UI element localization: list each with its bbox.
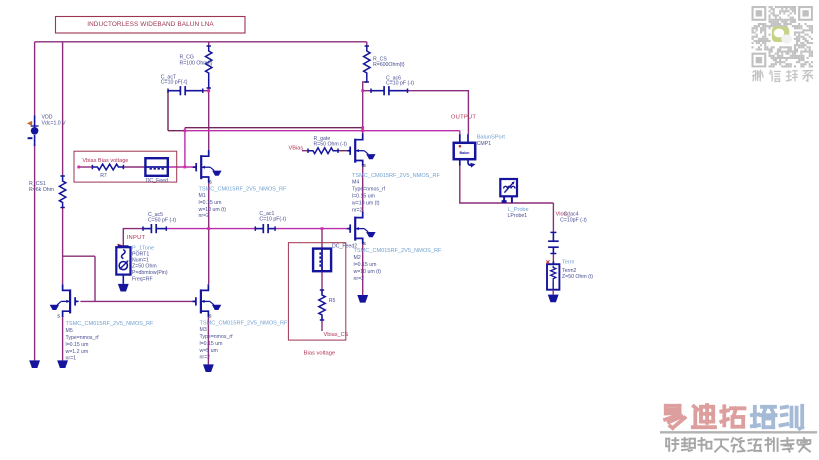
svg-text:DC_Feed2: DC_Feed2 xyxy=(332,244,357,250)
balun CMP1 xyxy=(454,134,506,168)
wire Vbias node start xyxy=(79,166,93,168)
termination Term2 xyxy=(546,259,593,294)
junction M4 drain upper xyxy=(361,126,364,129)
transistor M2 xyxy=(347,211,442,282)
wire cap to Term xyxy=(552,254,554,262)
node Vload label xyxy=(556,212,570,218)
wire VDD left rail upper xyxy=(34,42,36,116)
wire C_ac5 to C_ac1 xyxy=(166,228,255,230)
svg-text:P_1Tone: P_1Tone xyxy=(132,245,154,251)
wire mirror branch vertical xyxy=(94,256,96,301)
svg-text:R=600Ohm{t}: R=600Ohm{t} xyxy=(373,62,405,68)
svg-text:Vdc=1.0 V: Vdc=1.0 V xyxy=(42,120,67,126)
wire INPUT riser xyxy=(123,229,143,246)
resistor R5 xyxy=(319,290,336,320)
title box INDUCTORLESS WIDEBAND BALUN LNA xyxy=(56,17,246,34)
svg-text:R=50 Ohm (-t): R=50 Ohm (-t) xyxy=(314,141,348,147)
wire M1 gate to M4 drain xyxy=(185,127,363,129)
transistor M3 xyxy=(192,284,288,360)
svg-text:C=10 pF{-t}: C=10 pF{-t} xyxy=(161,80,188,86)
ground (Term2) xyxy=(548,295,559,303)
probe LProbe1 xyxy=(500,179,528,219)
node INPUT label xyxy=(127,235,146,241)
svg-text:C=10pF (-t): C=10pF (-t) xyxy=(560,217,587,223)
svg-text:s: s xyxy=(363,163,366,169)
ground (VDD rail) xyxy=(29,360,40,368)
wire DC_Feed2 to R5 xyxy=(321,271,323,293)
svg-text:w=1.2 um: w=1.2 um xyxy=(66,349,89,355)
svg-text:l=0.15 um: l=0.15 um xyxy=(200,341,223,347)
wire M1 source to M3 drain xyxy=(208,183,210,284)
svg-text:TSMC_CM015RF_2V5_NMOS_RF: TSMC_CM015RF_2V5_NMOS_RF xyxy=(199,187,288,193)
svg-text:Z=50 Ohm: Z=50 Ohm xyxy=(132,264,157,270)
wire R_CG drop from bus xyxy=(208,42,210,47)
wire rail2 upper (to R_CS1) xyxy=(62,42,64,176)
wire M4 source to M2 drain xyxy=(362,166,364,211)
wire VDD top bus xyxy=(35,41,367,43)
svg-text:nr=2: nr=2 xyxy=(200,355,211,361)
wire C_acT left vertical xyxy=(167,91,169,131)
svg-text:P=dbmtow(Pin): P=dbmtow(Pin) xyxy=(132,270,168,276)
ground (PORT1) xyxy=(118,284,129,292)
svg-text:M4: M4 xyxy=(352,180,359,186)
wire C_acT to gate junction xyxy=(168,130,185,132)
wire C_acT right stub xyxy=(203,90,209,92)
svg-text:w=10 um (t): w=10 um (t) xyxy=(354,269,382,275)
source P_1Tone PORT1 xyxy=(116,244,168,284)
resistor R_CS xyxy=(364,46,405,82)
svg-text:s: s xyxy=(209,314,212,320)
svg-text:R7: R7 xyxy=(100,173,107,179)
svg-text:M2: M2 xyxy=(354,255,361,261)
capacitor C_acT xyxy=(161,74,203,95)
resistor R7 xyxy=(92,164,123,179)
svg-text:s: s xyxy=(363,241,366,247)
transistor M4 xyxy=(347,134,441,214)
svg-text:Type=nmos_rf: Type=nmos_rf xyxy=(352,187,386,193)
inductor DC_Feed2 xyxy=(313,244,357,272)
transistor M1 xyxy=(193,150,287,219)
wire M5 source to ground xyxy=(62,317,64,360)
resistor R_CG xyxy=(180,46,213,88)
svg-text:l=0.15 um: l=0.15 um xyxy=(66,342,89,348)
svg-text:w=10 um (t): w=10 um (t) xyxy=(199,207,227,213)
svg-text:w=10 um (t): w=10 um (t) xyxy=(352,201,380,207)
bias voltage box outline xyxy=(288,243,345,340)
wire balun in1 drop xyxy=(459,131,461,134)
wire R_CG to M1 drain xyxy=(208,88,210,150)
svg-text:Z=50 Ohm (t): Z=50 Ohm (t) xyxy=(562,274,593,280)
svg-text:Type=nmos_rf: Type=nmos_rf xyxy=(66,335,100,341)
svg-text:C=10 pF(-t): C=10 pF(-t) xyxy=(259,216,286,222)
inductor DC_Feed xyxy=(145,158,168,184)
svg-text:Bias voltage: Bias voltage xyxy=(304,351,336,357)
wire M5-M3 gate net xyxy=(80,300,196,302)
capacitor C_ac4 xyxy=(548,212,587,254)
svg-text:l=0.15 um: l=0.15 um xyxy=(352,194,375,200)
junction M1-M3 at input net xyxy=(207,227,210,230)
wire M2 source to ground xyxy=(362,244,364,295)
wire mirror branch horizontal xyxy=(63,255,95,257)
svg-text:nr=2: nr=2 xyxy=(352,208,363,214)
svg-text:DC_Feed: DC_Feed xyxy=(146,178,168,184)
svg-text:Num=1: Num=1 xyxy=(132,258,149,264)
junction C_acT tap xyxy=(207,89,210,92)
svg-text:Type=nmos_rf: Type=nmos_rf xyxy=(200,334,234,340)
junction balun feed crossing xyxy=(361,129,364,132)
wire DC_Feed to M1 gate xyxy=(168,166,197,168)
wire C_ac6 to OUTPUT corner xyxy=(408,91,469,134)
svg-text:TSMC_CM015RF_2V5_NMOS_RF: TSMC_CM015RF_2V5_NMOS_RF xyxy=(66,321,155,327)
node Vbias label xyxy=(289,146,304,152)
node OUTPUT label xyxy=(451,115,477,121)
wire R_CS drop from bus xyxy=(366,42,368,47)
svg-text:Term2: Term2 xyxy=(562,268,577,274)
svg-text:OUTPUT: OUTPUT xyxy=(451,115,477,121)
svg-text:TSMC_CM015RF_2V5_NMOS_RF: TSMC_CM015RF_2V5_NMOS_RF xyxy=(200,321,289,327)
wire C_ac1 to M2 gate xyxy=(275,228,347,230)
junction Vbias node dot xyxy=(77,166,80,169)
svg-text:Vbias Bias voltage: Vbias Bias voltage xyxy=(82,158,128,164)
ground (M2 source) xyxy=(357,295,368,303)
ground (M5 source) xyxy=(57,360,68,368)
wire C_ac6 left stub xyxy=(363,90,371,92)
svg-text:l=0.15 um: l=0.15 um xyxy=(354,262,377,268)
svg-text:VBias: VBias xyxy=(289,146,304,152)
wire VDD left rail lower xyxy=(34,144,36,360)
svg-text:Freq=RF: Freq=RF xyxy=(132,276,153,282)
svg-text:R=100 Ohm{t}: R=100 Ohm{t} xyxy=(180,60,213,66)
wire R5 to Vbias_CS node xyxy=(321,317,323,332)
capacitor C_ac1 xyxy=(255,211,286,233)
svg-text:nr=2: nr=2 xyxy=(199,213,210,219)
capacitor C_ac5 xyxy=(143,212,176,233)
junction M1 gate net at DC_Feed xyxy=(184,166,187,169)
ground (M3 source) xyxy=(203,364,214,372)
svg-text:L_Probe: L_Probe xyxy=(508,207,529,213)
svg-text:l=0.15 um: l=0.15 um xyxy=(199,200,222,206)
svg-text:LProbe1: LProbe1 xyxy=(508,213,528,219)
bias box outline xyxy=(74,151,177,182)
wire M1 gate vertical xyxy=(184,128,186,167)
wire R_gate to M4 gate xyxy=(338,150,347,152)
node Vbias_CS label xyxy=(324,332,349,338)
resistor R_CS1 xyxy=(29,176,66,208)
svg-text:s: s xyxy=(209,179,212,185)
svg-text:TSMC_CM015RF_2V5_NMOS_RF: TSMC_CM015RF_2V5_NMOS_RF xyxy=(354,248,443,254)
svg-text:nr=1: nr=1 xyxy=(66,356,77,362)
wire Vbias to R_gate xyxy=(302,150,308,152)
svg-text:Term: Term xyxy=(562,259,575,265)
svg-text:BalunSPort: BalunSPort xyxy=(477,135,506,141)
wire R_CS bottom jog xyxy=(363,82,367,139)
svg-text:M1: M1 xyxy=(199,193,206,199)
voltage source VDD xyxy=(27,114,66,146)
svg-text:CMP1: CMP1 xyxy=(477,141,492,147)
wire rail2 lower (R_CS1 to M5 drain) xyxy=(62,208,64,285)
svg-text:Vbias_CS: Vbias_CS xyxy=(324,332,349,338)
junction M1 gate corner xyxy=(184,129,187,132)
svg-text:M5: M5 xyxy=(66,328,73,334)
svg-text:INDUCTORLESS WIDEBAND BALUN LN: INDUCTORLESS WIDEBAND BALUN LNA xyxy=(87,21,214,28)
wire M3 source to ground xyxy=(207,317,209,364)
svg-text:w=5 um: w=5 um xyxy=(200,348,218,354)
svg-text:C=50 pF (-t): C=50 pF (-t) xyxy=(148,218,176,224)
wire DC_Feed2 drop xyxy=(321,229,323,249)
node Bias voltage label xyxy=(304,351,336,357)
wire load drop xyxy=(552,203,554,232)
node Vbias label (box) xyxy=(82,158,128,164)
wire R7 to DC_Feed xyxy=(123,166,145,168)
svg-text:nr=2: nr=2 xyxy=(354,276,365,282)
capacitor C_ac6 xyxy=(371,75,414,95)
svg-text:PORT1: PORT1 xyxy=(132,251,149,257)
svg-text:M3: M3 xyxy=(200,327,207,333)
svg-text:R5: R5 xyxy=(329,298,336,304)
svg-text:s: s xyxy=(57,314,60,320)
svg-text:TSMC_CM015RF_2V5_NMOS_RF: TSMC_CM015RF_2V5_NMOS_RF xyxy=(352,173,441,179)
junction C_ac6 tap xyxy=(361,89,364,92)
junction DC_Feed2 tap xyxy=(321,227,324,230)
svg-text:C=10 pF (-t): C=10 pF (-t) xyxy=(386,81,414,87)
transistor M5 xyxy=(50,284,154,361)
svg-text:Balun: Balun xyxy=(460,151,470,155)
svg-text:INPUT: INPUT xyxy=(127,235,146,241)
wire feed to balun xyxy=(185,130,460,132)
resistor R_gate xyxy=(308,136,347,154)
svg-text:R=6k Ohm: R=6k Ohm xyxy=(29,187,54,193)
wire balun out drop xyxy=(460,166,554,203)
